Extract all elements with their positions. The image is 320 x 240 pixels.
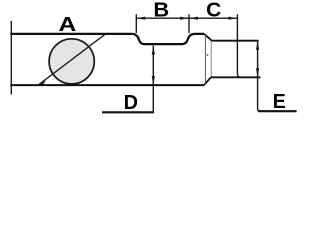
svg-text:C: C (206, 0, 221, 22)
svg-text:D: D (124, 91, 138, 114)
svg-text:E: E (273, 90, 286, 113)
svg-text:B: B (153, 0, 169, 22)
svg-text:A: A (59, 13, 77, 36)
